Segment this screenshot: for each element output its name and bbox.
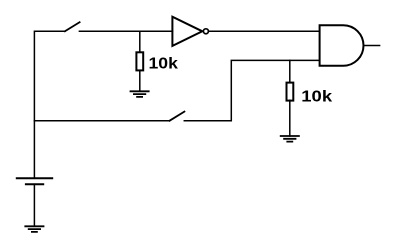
svg-text:10k: 10k xyxy=(149,56,179,73)
svg-text:10k: 10k xyxy=(301,89,332,106)
